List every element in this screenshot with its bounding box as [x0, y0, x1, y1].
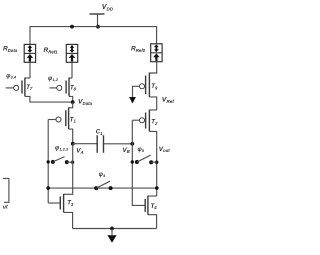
- svg-text:RRef1: RRef1: [44, 47, 59, 54]
- svg-text:φ1,2: φ1,2: [48, 76, 59, 82]
- capacitor C1: [73, 135, 133, 153]
- switch phi5: [131, 155, 159, 164]
- wire T3 drain to ground rail: [64, 212, 73, 228]
- transistor T9 (PMOS): [133, 62, 157, 97]
- wire VA down through bus to T3 source: [64, 144, 73, 195]
- svg-text:φ3,4: φ3,4: [6, 73, 17, 79]
- transistor T7 (PMOS): [6, 78, 30, 97]
- wire T8 drain: [69, 96, 73, 102]
- wire cropped stub left edge: [3, 178, 9, 202]
- svg-text:φ1,2,3: φ1,2,3: [55, 145, 69, 151]
- svg-text:ut: ut: [3, 205, 8, 211]
- svg-text:VB: VB: [123, 147, 130, 154]
- node rail-RRef1 junction dot: [70, 25, 74, 29]
- transistor T3 (NMOS): [48, 194, 63, 213]
- svg-text:Vout: Vout: [159, 146, 170, 153]
- arrow down at T9 gate: [129, 97, 136, 104]
- resistor RRef1 MTJ: [66, 44, 77, 62]
- svg-text:T7: T7: [26, 85, 33, 91]
- svg-text:T9: T9: [151, 84, 158, 90]
- svg-text:C1: C1: [96, 130, 103, 136]
- wire T4 drain to ground rail: [148, 215, 157, 229]
- svg-text:VDD: VDD: [102, 4, 114, 12]
- wire bus: [48, 187, 157, 189]
- switch phi123: [47, 157, 75, 165]
- transistor T2 (PMOS): [132, 110, 156, 132]
- svg-text:VData: VData: [78, 99, 93, 107]
- transistor T8 (PMOS): [50, 78, 73, 97]
- svg-text:RRef0: RRef0: [131, 46, 146, 53]
- svg-text:T3: T3: [67, 201, 74, 207]
- svg-text:VRef: VRef: [162, 97, 175, 105]
- svg-text:φ5: φ5: [138, 147, 145, 153]
- switch phi4: [94, 181, 112, 190]
- wire T2 drain down: [149, 131, 156, 196]
- wire T7 drain to VData: [25, 96, 73, 102]
- power VDD symbol: [90, 14, 105, 27]
- svg-text:T4: T4: [151, 204, 158, 210]
- wire T1 gate rail down: [47, 120, 49, 204]
- node VA dot: [71, 142, 75, 146]
- wire RData to T7: [29, 62, 31, 78]
- svg-text:T8: T8: [70, 85, 77, 91]
- node VB dot: [130, 142, 134, 146]
- transistor T4 (NMOS): [145, 196, 157, 215]
- svg-text:φ4: φ4: [99, 172, 106, 178]
- svg-text:VA: VA: [76, 148, 83, 155]
- node bus left dot: [46, 186, 50, 190]
- resistor RRef0 MTJ: [151, 44, 162, 62]
- svg-text:RData: RData: [3, 46, 18, 53]
- svg-text:T2: T2: [151, 120, 158, 126]
- svg-text:T1: T1: [70, 117, 77, 123]
- ground: [107, 229, 116, 243]
- node VData dot: [71, 100, 75, 104]
- node ground dot: [110, 227, 114, 231]
- wire ground rail: [73, 228, 157, 230]
- transistor T1 (PMOS): [48, 102, 72, 129]
- wire top rail: [30, 27, 157, 45]
- resistor RData MTJ: [24, 44, 35, 62]
- wire T9 drain: [149, 97, 156, 110]
- wire T1 drain to VA: [69, 129, 73, 144]
- wire RRef1 to T8: [71, 62, 73, 78]
- wire T2 gate line down to T4 gate: [132, 120, 145, 205]
- node VDD rail junction dot: [96, 25, 100, 29]
- node bus right dot: [155, 186, 159, 190]
